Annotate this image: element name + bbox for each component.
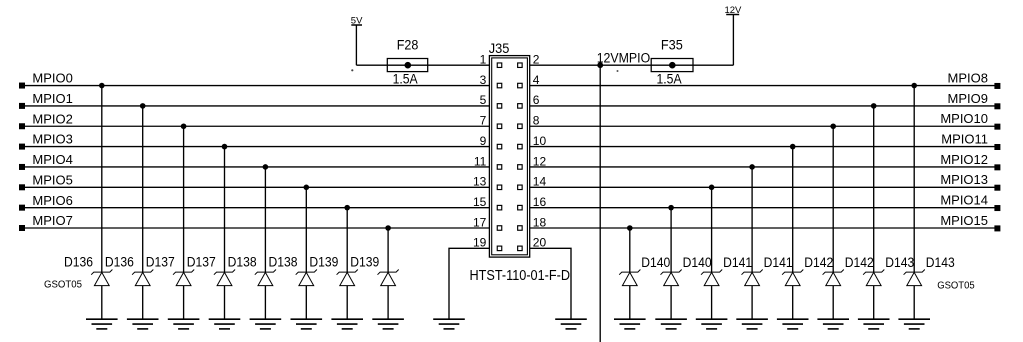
- junction MPIO1/D136: [140, 103, 146, 109]
- J35 pin 15 pad: [497, 205, 502, 210]
- wire J35 pin 2 to 12VMPIO junction: [530, 64, 601, 66]
- connector J35 body: [489, 56, 529, 258]
- wire 12VMPIO down to page edge: [599, 65, 601, 342]
- svg-text:D140: D140: [683, 255, 712, 271]
- ground (D139): [372, 319, 404, 329]
- diode D141 (TVS): [701, 270, 722, 286]
- svg-text:D139: D139: [350, 255, 379, 271]
- wire MPIO1: [22, 105, 489, 107]
- wire D139 branch: [387, 228, 389, 272]
- junction MPIO13/D141: [709, 185, 715, 191]
- junction MPIO8/D143: [911, 83, 917, 89]
- ground (D143): [898, 319, 930, 329]
- svg-text:7: 7: [480, 114, 487, 128]
- terminal MPIO11: [994, 144, 1000, 150]
- svg-text:MPIO12: MPIO12: [940, 152, 988, 167]
- junction MPIO12/D141: [749, 164, 755, 170]
- ground (D138): [250, 319, 282, 329]
- diode D138 (TVS): [296, 270, 317, 286]
- junction 12VMPIO: [597, 62, 603, 68]
- svg-text:J35: J35: [489, 41, 510, 57]
- svg-text:GSOT05: GSOT05: [44, 279, 82, 290]
- terminal MPIO9: [994, 103, 1000, 109]
- svg-text:MPIO9: MPIO9: [948, 91, 988, 106]
- J35 pin 11 pad: [497, 165, 502, 170]
- wire F28 to J35 pin 1: [428, 64, 490, 66]
- J35 pin 1 pad: [497, 63, 502, 67]
- J35 pin 10 pad: [518, 144, 523, 149]
- svg-text:2: 2: [533, 53, 540, 67]
- wire D137 branch: [183, 126, 185, 272]
- terminal MPIO2: [19, 123, 25, 129]
- wire D136 to ground: [101, 286, 103, 320]
- wire junction to fuse F35: [600, 64, 651, 66]
- J35 pin 8 pad: [518, 124, 523, 129]
- junction MPIO7/D139: [385, 225, 391, 231]
- wire MPIO0: [22, 85, 489, 87]
- svg-text:D141: D141: [764, 255, 793, 271]
- J35 pin 13 pad: [497, 185, 502, 190]
- wire D142 branch: [832, 126, 834, 272]
- wire MPIO7: [22, 227, 489, 229]
- diode D137 (TVS): [173, 270, 194, 286]
- ground (pin 20): [555, 319, 587, 329]
- svg-text:MPIO0: MPIO0: [32, 71, 72, 86]
- wire D140 to ground: [670, 286, 672, 320]
- svg-text:MPIO8: MPIO8: [948, 70, 988, 85]
- svg-text:MPIO5: MPIO5: [32, 172, 72, 187]
- wire D141 to ground: [711, 286, 713, 320]
- svg-text:MPIO6: MPIO6: [32, 193, 72, 208]
- wire D137 to ground: [183, 286, 185, 320]
- J35 pin 19 pad: [497, 246, 502, 251]
- terminal MPIO0: [19, 83, 25, 89]
- svg-text:15: 15: [473, 195, 487, 209]
- junction MPIO10/D142: [830, 123, 836, 129]
- wire D143 branch: [913, 86, 915, 273]
- svg-text:MPIO14: MPIO14: [940, 193, 988, 208]
- svg-text:D143: D143: [885, 255, 914, 271]
- ground (D138): [291, 319, 323, 329]
- ground (D137): [209, 319, 241, 329]
- svg-text:6: 6: [533, 93, 540, 107]
- svg-text:9: 9: [480, 134, 487, 148]
- wire F35 to 12V: [693, 64, 733, 66]
- wire MPIO6: [22, 207, 489, 209]
- wire MPIO15: [530, 227, 997, 229]
- terminal MPIO3: [19, 144, 25, 150]
- J35 pin 4 pad: [518, 83, 523, 88]
- svg-text:MPIO7: MPIO7: [32, 213, 72, 228]
- svg-text:11: 11: [474, 154, 487, 168]
- svg-text:D139: D139: [309, 255, 338, 271]
- svg-text:8: 8: [533, 114, 540, 128]
- power symbol 12V: [724, 5, 742, 65]
- wire J35 pin 19 to ground: [449, 248, 489, 319]
- wire D143 to ground: [873, 286, 875, 320]
- diode D139 (TVS): [337, 270, 358, 286]
- terminal MPIO12: [994, 164, 1000, 170]
- stray dot mark: [617, 70, 619, 72]
- svg-text:3: 3: [480, 73, 487, 87]
- svg-text:D136: D136: [105, 255, 134, 271]
- svg-text:D140: D140: [641, 255, 670, 271]
- junction MPIO3/D137: [222, 144, 228, 150]
- terminal MPIO4: [19, 164, 25, 170]
- svg-text:F35: F35: [661, 38, 683, 54]
- stray dot mark: [351, 69, 353, 71]
- ground (D143): [858, 319, 890, 329]
- J35 pin 14 pad: [518, 185, 523, 190]
- wire MPIO9: [530, 105, 997, 107]
- J35 pin 2 pad: [518, 63, 523, 67]
- svg-text:MPIO2: MPIO2: [32, 111, 72, 126]
- junction MPIO15/D140: [627, 225, 633, 231]
- junction MPIO11/D142: [790, 144, 796, 150]
- svg-text:12VMPIO: 12VMPIO: [597, 51, 651, 67]
- diode D137 (TVS): [214, 270, 235, 286]
- terminal MPIO10: [994, 124, 1000, 130]
- svg-text:1: 1: [480, 53, 487, 67]
- junction MPIO4/D138: [263, 164, 269, 170]
- svg-text:MPIO4: MPIO4: [32, 152, 72, 167]
- J35 pin 5 pad: [497, 104, 502, 109]
- terminal MPIO8: [994, 83, 1000, 89]
- wire MPIO8: [530, 85, 997, 87]
- junction MPIO6/D139: [344, 205, 350, 211]
- svg-text:MPIO15: MPIO15: [940, 213, 988, 228]
- svg-text:D137: D137: [146, 255, 175, 271]
- wire MPIO5: [22, 186, 489, 188]
- terminal MPIO6: [19, 205, 25, 211]
- svg-text:D137: D137: [187, 255, 216, 271]
- svg-text:MPIO13: MPIO13: [940, 172, 988, 187]
- wire D138 branch: [305, 187, 307, 272]
- wire D140 branch: [629, 228, 631, 272]
- svg-text:16: 16: [533, 195, 547, 209]
- wire MPIO11: [530, 146, 997, 148]
- svg-text:14: 14: [533, 175, 547, 189]
- diode D140 (TVS): [619, 270, 640, 286]
- wire D142 to ground: [792, 286, 794, 320]
- svg-text:MPIO1: MPIO1: [32, 91, 72, 106]
- junction MPIO14/D140: [668, 205, 674, 211]
- wire D139 branch: [346, 208, 348, 272]
- wire D137 to ground: [224, 286, 226, 320]
- svg-text:5: 5: [480, 93, 487, 107]
- terminal MPIO14: [994, 205, 1000, 211]
- diode D142 (TVS): [782, 270, 803, 286]
- svg-text:MPIO11: MPIO11: [941, 132, 988, 147]
- wire D139 to ground: [346, 286, 348, 320]
- diode D143 (TVS): [863, 270, 884, 286]
- svg-text:5V: 5V: [351, 15, 363, 26]
- svg-text:D141: D141: [723, 255, 752, 271]
- fuse F35: [651, 59, 693, 72]
- J35 pin 16 pad: [518, 205, 523, 210]
- diode D142 (TVS): [823, 270, 844, 286]
- diode D143 (TVS): [904, 270, 925, 286]
- J35 pin 17 pad: [497, 226, 502, 231]
- diode D136 (TVS): [132, 270, 153, 286]
- svg-text:17: 17: [473, 215, 487, 229]
- J35 pin 12 pad: [518, 165, 523, 170]
- wire D140 to ground: [629, 286, 631, 320]
- wire D136 branch: [142, 106, 144, 272]
- svg-text:18: 18: [533, 215, 547, 229]
- terminal MPIO1: [19, 103, 25, 109]
- svg-text:4: 4: [533, 73, 540, 87]
- wire MPIO2: [22, 125, 489, 127]
- junction MPIO2/D137: [181, 123, 187, 129]
- svg-text:D142: D142: [845, 255, 874, 271]
- wire D136 branch: [101, 86, 103, 273]
- ground (D141): [736, 319, 768, 329]
- power symbol 5V: [351, 15, 363, 65]
- wire J35 pin 20 to ground: [530, 248, 571, 319]
- terminal MPIO15: [994, 225, 1000, 231]
- svg-text:HTST-110-01-F-D: HTST-110-01-F-D: [470, 268, 571, 284]
- wire D138 to ground: [264, 286, 266, 320]
- svg-text:20: 20: [533, 236, 547, 250]
- ground (D136): [86, 319, 118, 329]
- ground (pin 19): [433, 319, 465, 329]
- junction MPIO9/D143: [871, 103, 877, 109]
- diode D138 (TVS): [255, 270, 276, 286]
- wire D142 to ground: [832, 286, 834, 320]
- wire D141 branch: [751, 167, 753, 272]
- wire MPIO14: [530, 207, 997, 209]
- svg-text:D136: D136: [64, 255, 93, 271]
- wire D137 branch: [224, 147, 226, 273]
- wire D142 branch: [792, 147, 794, 273]
- J35 pin 6 pad: [518, 104, 523, 109]
- terminal MPIO7: [19, 225, 25, 231]
- svg-text:12V: 12V: [724, 5, 742, 16]
- J35 pin 9 pad: [497, 144, 502, 149]
- wire D141 to ground: [751, 286, 753, 320]
- wire D143 to ground: [913, 286, 915, 320]
- wire MPIO4: [22, 166, 489, 168]
- fuse F28: [387, 59, 427, 72]
- wire MPIO13: [530, 186, 997, 188]
- svg-text:GSOT05: GSOT05: [937, 280, 975, 291]
- svg-text:19: 19: [473, 236, 487, 250]
- svg-text:D143: D143: [926, 255, 955, 271]
- svg-text:MPIO3: MPIO3: [32, 132, 72, 147]
- svg-text:F28: F28: [397, 38, 419, 54]
- wire D138 branch: [264, 167, 266, 272]
- svg-text:D142: D142: [804, 255, 833, 271]
- wire MPIO10: [530, 125, 997, 127]
- diode D140 (TVS): [661, 270, 682, 286]
- J35 pin 20 pad: [518, 246, 523, 251]
- wire D138 to ground: [305, 286, 307, 320]
- junction MPIO0/D136: [99, 83, 105, 89]
- ground (D139): [331, 319, 363, 329]
- wire MPIO12: [530, 166, 997, 168]
- ground (D137): [168, 319, 200, 329]
- wire D139 to ground: [387, 286, 389, 320]
- wire 5V to fuse F28: [356, 64, 387, 66]
- diode D141 (TVS): [742, 270, 763, 286]
- junction MPIO5/D138: [304, 185, 310, 191]
- ground (D136): [127, 319, 159, 329]
- J35 pin 7 pad: [497, 124, 502, 129]
- wire D141 branch: [711, 187, 713, 272]
- J35 pin 18 pad: [518, 226, 523, 231]
- diode D139 (TVS): [378, 270, 399, 286]
- svg-text:10: 10: [533, 134, 547, 148]
- wire D140 branch: [670, 208, 672, 272]
- ground (D140): [614, 319, 646, 329]
- ground (D142): [817, 319, 849, 329]
- ground (D140): [655, 319, 687, 329]
- svg-text:13: 13: [473, 175, 487, 189]
- diode D136 (TVS): [91, 270, 112, 286]
- wire D143 branch: [873, 106, 875, 272]
- wire D136 to ground: [142, 286, 144, 320]
- terminal MPIO5: [19, 184, 25, 190]
- ground (D141): [696, 319, 728, 329]
- svg-text:D138: D138: [269, 255, 298, 271]
- J35 pin 3 pad: [497, 83, 502, 88]
- ground (D142): [777, 319, 809, 329]
- svg-text:D138: D138: [228, 255, 257, 271]
- wire MPIO3: [22, 146, 489, 148]
- terminal MPIO13: [994, 185, 1000, 191]
- svg-text:12: 12: [533, 154, 547, 168]
- svg-text:MPIO10: MPIO10: [940, 111, 988, 126]
